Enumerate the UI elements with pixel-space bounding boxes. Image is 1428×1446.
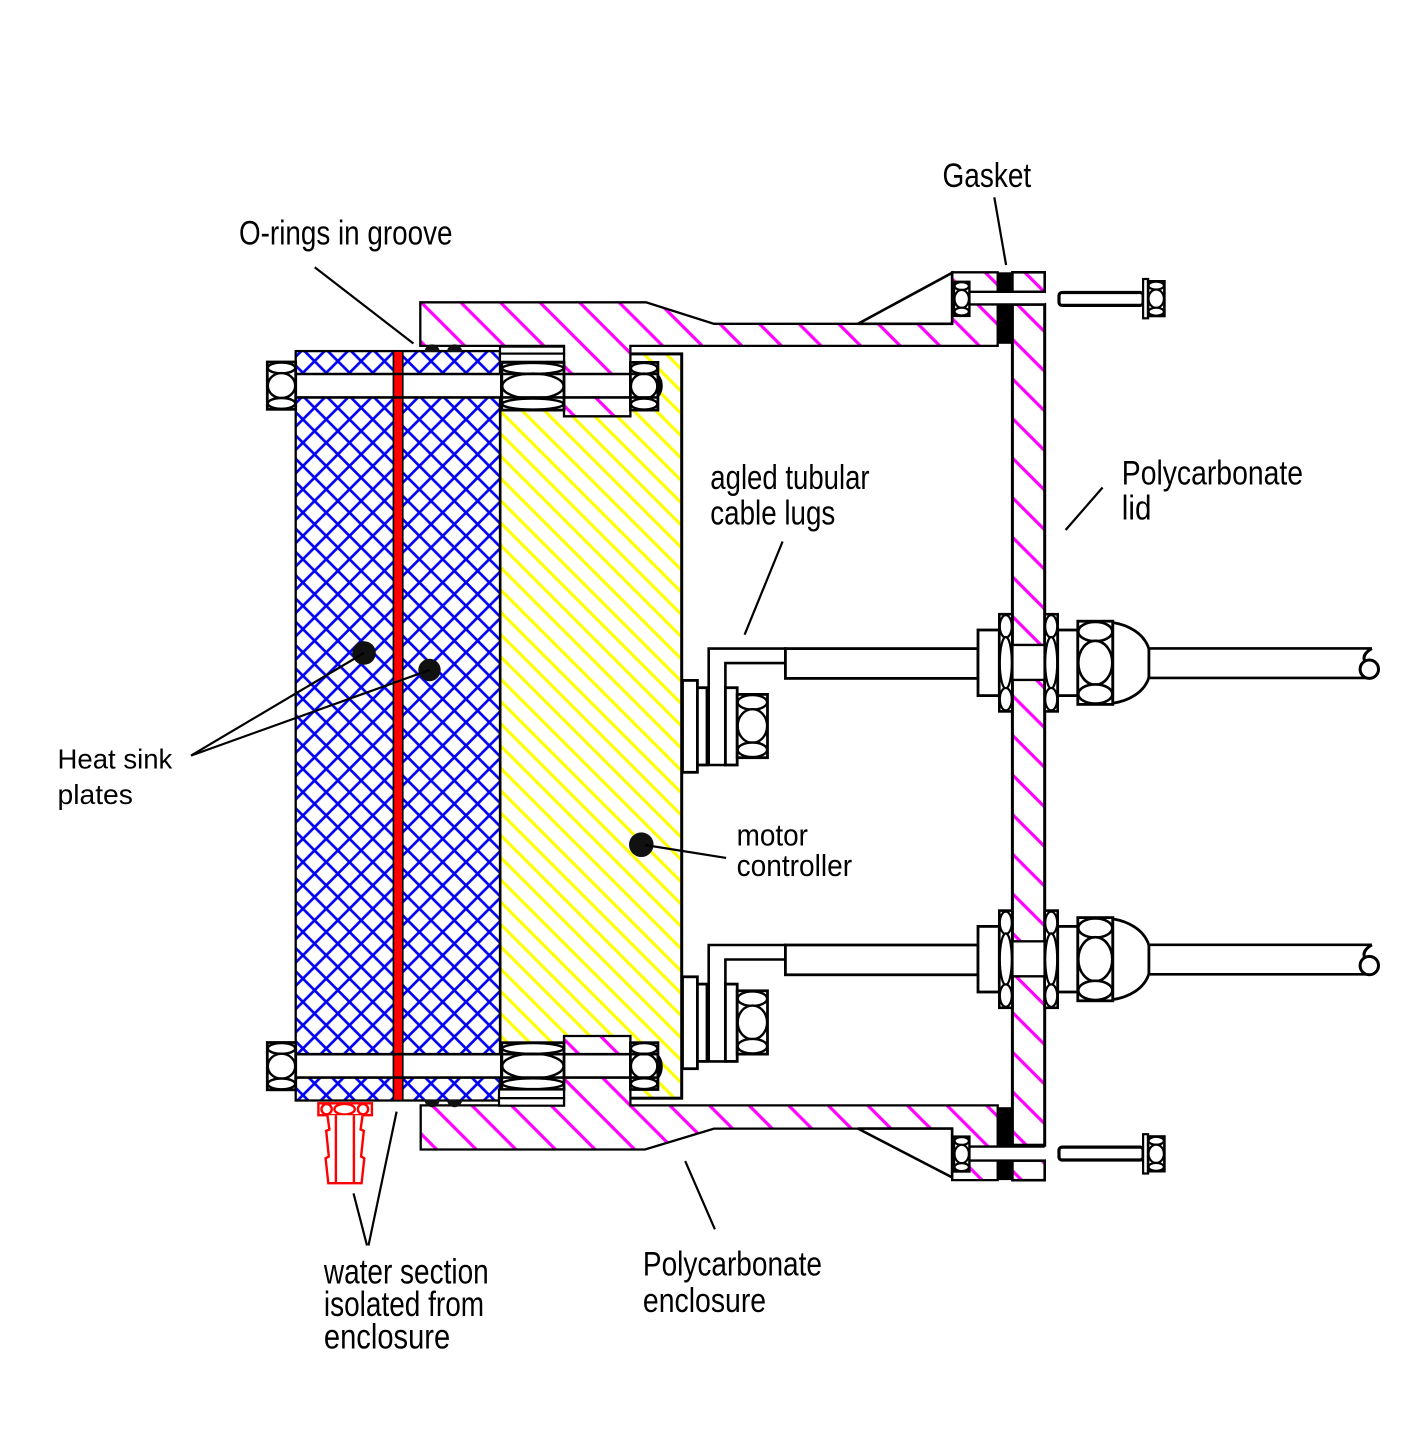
leader Polycarbonate enclosure	[685, 1161, 715, 1229]
label motor controller	[737, 818, 853, 883]
svg-text:lid: lid	[1122, 490, 1152, 528]
heat sink plates blue block	[296, 351, 500, 1100]
gland top spacer	[1058, 630, 1078, 696]
leader water section 2	[354, 1193, 368, 1245]
lid screw top washer	[1143, 279, 1148, 318]
cable top outside	[1150, 648, 1372, 678]
label Heat sink plates	[58, 743, 174, 810]
water fitting hose barb	[326, 1115, 365, 1183]
gland bottom left washers	[999, 911, 1012, 1008]
gland top right washers	[1045, 614, 1058, 711]
cable bottom break curl	[1364, 945, 1372, 958]
bolt B1 nut end cap	[658, 374, 663, 399]
svg-text:enclosure: enclosure	[643, 1282, 766, 1320]
cable bottom outside	[1150, 945, 1372, 975]
svg-text:enclosure: enclosure	[324, 1318, 450, 1357]
water isolation red stripe	[393, 351, 402, 1100]
lug plate A top	[683, 680, 698, 772]
bolt B2 washer stack	[502, 1043, 564, 1090]
heat pipe dot 2	[418, 659, 440, 681]
gland top lid hole	[1011, 645, 1046, 680]
label Polycarbonate enclosure	[643, 1246, 822, 1321]
leader water section 1	[369, 1112, 397, 1246]
lug plate B bottom	[697, 984, 707, 1061]
gland bottom left nut	[978, 926, 999, 992]
svg-text:Polycarbonate: Polycarbonate	[1122, 455, 1303, 493]
lid screw bottom head	[1148, 1137, 1164, 1172]
leader O-rings	[315, 267, 414, 343]
bolt B2 shaft lines	[296, 1054, 658, 1077]
clamp lip strips bottom	[499, 1090, 564, 1099]
svg-text:agled tubular: agled tubular	[710, 459, 869, 497]
gland top left nut	[978, 630, 999, 696]
label Gasket	[943, 157, 1032, 195]
bolt B1 washer stack	[502, 362, 564, 410]
polycarbonate lid main bar	[1012, 304, 1044, 1145]
bolt band bottom (white)	[296, 1054, 500, 1077]
svg-text:O-rings in groove: O-rings in groove	[239, 214, 453, 252]
bolt B2 nut end cap	[658, 1054, 663, 1080]
label O-rings in groove	[239, 214, 453, 252]
lid screw bottom washer	[1143, 1134, 1148, 1173]
flange washer bottom	[954, 1137, 969, 1172]
lug plate C bottom	[725, 984, 737, 1061]
cable top break curl	[1364, 648, 1372, 661]
cable top inside	[785, 649, 978, 679]
top flange white triangle	[858, 273, 952, 324]
svg-text:plates: plates	[58, 779, 133, 810]
gasket bottom pieces	[998, 1107, 1012, 1146]
svg-text:controller: controller	[737, 848, 853, 883]
cable bottom inside	[785, 945, 978, 975]
cable lug wire top	[709, 649, 786, 765]
label Polycarbonate lid	[1122, 455, 1303, 528]
leader heat sink 2	[191, 670, 430, 756]
gland top left washers	[999, 614, 1012, 711]
label water section	[323, 1253, 489, 1357]
bottom flange white triangle	[858, 1129, 952, 1178]
lid screw bottom shaft	[1059, 1147, 1143, 1160]
lid screw top shaft	[1059, 293, 1143, 306]
gland bottom right washers	[1045, 911, 1058, 1008]
label cable lugs	[710, 459, 869, 533]
heat pipe dot 1	[352, 641, 376, 665]
bolt B1 hex nut right	[630, 362, 658, 410]
gland bottom cone	[1113, 919, 1149, 1000]
bolt band top (white)	[296, 374, 500, 397]
bolt B2 hex head left bottom	[267, 1043, 295, 1090]
leader Gasket	[994, 197, 1006, 265]
leader Polycarbonate lid	[1066, 488, 1103, 531]
polycarbonate lid top piece	[1012, 272, 1044, 292]
cable lug wire bottom	[709, 945, 786, 1061]
O-ring top right	[447, 344, 462, 352]
polycarbonate enclosure top wall	[420, 272, 997, 416]
leader cable lugs	[745, 542, 783, 635]
top flange bolt hole	[969, 292, 1044, 305]
lug bolt washers top	[737, 694, 767, 757]
flange washer top	[954, 282, 969, 316]
leader motor controller	[645, 845, 726, 858]
gasket top pieces	[998, 272, 1012, 292]
gland top outer nut	[1078, 621, 1113, 704]
polycarbonate lid bottom piece	[1012, 1161, 1044, 1181]
bolt B1 shaft white fill boss	[566, 375, 629, 396]
bolt B1 hex head left top	[267, 362, 295, 409]
gland bottom spacer	[1058, 926, 1078, 992]
lug plate B top	[697, 688, 707, 765]
O-ring bottom right	[447, 1100, 462, 1108]
lug bolt washers bottom	[737, 991, 767, 1054]
svg-text:Heat sink: Heat sink	[58, 743, 174, 774]
lug plate A bottom	[683, 977, 698, 1069]
polycarbonate enclosure bottom wall	[421, 1036, 998, 1180]
motor controller yellow block	[500, 354, 682, 1098]
gland top cone	[1113, 623, 1149, 704]
water fitting flange	[318, 1103, 372, 1115]
O-ring top left	[425, 344, 440, 352]
bolt B2 shaft white fill boss	[566, 1055, 629, 1076]
lid screw top head	[1148, 281, 1164, 316]
bottom flange bolt hole	[969, 1147, 1044, 1161]
leader heat sink 1	[191, 653, 364, 756]
svg-text:Gasket: Gasket	[943, 157, 1032, 195]
gland bottom lid hole	[1011, 941, 1046, 976]
bolt B1 shaft lines	[296, 374, 658, 397]
lug plate C top	[725, 688, 737, 765]
motor controller dot	[629, 832, 654, 857]
svg-text:cable lugs: cable lugs	[710, 495, 835, 533]
gland bottom outer nut	[1078, 918, 1113, 1001]
svg-text:Polycarbonate: Polycarbonate	[643, 1246, 822, 1284]
clamp lip strips top	[500, 347, 564, 354]
bolt B2 hex nut right	[630, 1043, 658, 1090]
O-ring bottom left	[425, 1100, 440, 1108]
